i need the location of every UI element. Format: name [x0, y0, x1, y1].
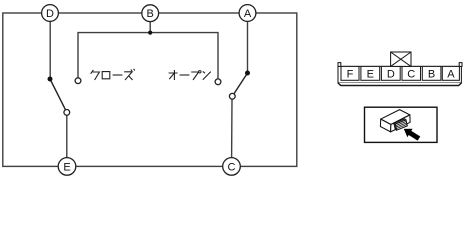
switch SW1 pivot dot	[48, 77, 53, 82]
svg-text:E: E	[367, 69, 374, 81]
node D	[42, 5, 59, 22]
svg-text:A: A	[244, 8, 252, 20]
wire C stem	[231, 99, 233, 158]
connector bottom lip	[338, 83, 461, 86]
cavity F	[341, 66, 359, 80]
svg-text:E: E	[63, 161, 70, 173]
relay location box	[365, 107, 438, 142]
wire E stem	[66, 115, 68, 158]
svg-text:B: B	[147, 8, 154, 20]
svg-text:A: A	[447, 69, 455, 81]
node B	[142, 5, 159, 22]
label クローズ (close)	[91, 69, 135, 80]
svg-text:C: C	[407, 69, 415, 81]
switch SW2 contact	[229, 93, 235, 99]
svg-text:D: D	[46, 8, 54, 20]
cavity C	[402, 66, 421, 80]
wire A stem	[247, 21, 249, 71]
switch SW1 blade (close side)	[50, 79, 66, 110]
wire inner bus (node B to contacts)	[78, 33, 218, 79]
svg-text:B: B	[428, 69, 435, 81]
connector tab left	[338, 63, 341, 67]
connector body	[338, 52, 462, 86]
node E	[58, 158, 76, 176]
cavity B	[422, 66, 441, 80]
contact terminal open	[215, 79, 221, 85]
junction under B	[148, 30, 152, 34]
contact terminal close	[75, 78, 81, 84]
connector tab right	[459, 63, 462, 67]
wire B stem	[149, 22, 151, 33]
svg-text:D: D	[387, 69, 395, 81]
relay body (isometric)	[380, 110, 410, 132]
terminal mark (crossed box)	[391, 52, 411, 66]
wire D stem	[49, 21, 51, 77]
switch SW2 blade (open side)	[234, 73, 248, 94]
relay socket	[394, 119, 406, 124]
label オープン (open)	[169, 70, 211, 80]
svg-text:F: F	[347, 69, 354, 81]
switch SW2 pivot dot	[245, 71, 250, 76]
switch SW1 contact	[64, 110, 70, 116]
node A	[239, 5, 256, 22]
svg-text:C: C	[228, 161, 236, 173]
cavity A	[442, 66, 459, 80]
pointer arrow	[404, 129, 421, 141]
wire outer loop	[3, 13, 297, 166]
cavity E	[361, 66, 380, 80]
node C	[223, 158, 241, 176]
cavity D	[381, 66, 400, 80]
